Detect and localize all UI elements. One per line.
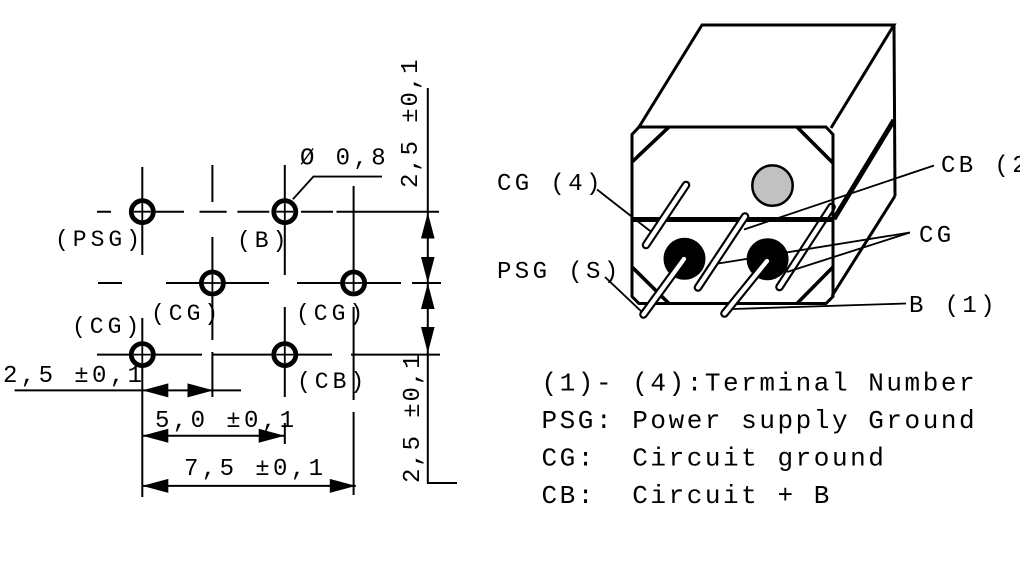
centerline col3 vertical [353,186,355,495]
lead terminal S (through left hole) [644,259,685,315]
arrow down at row2 [421,257,435,283]
svg-text:CG: Circuit ground: CG: Circuit ground [542,444,887,474]
arrow left at col0 [142,383,168,397]
leader CG fan upper [712,233,910,265]
centerline col2 vertical [284,165,286,444]
svg-text:CG: CG [919,223,955,250]
pin CB (bottom-center) [274,344,296,366]
pin PSG (top-left) [131,201,153,223]
lead terminal 2 (middle) [698,217,745,288]
right face thick stripe [834,120,894,219]
centerline col1 vertical [211,165,213,397]
svg-text:PSG (S): PSG (S) [497,259,622,286]
leader PSG (S) [605,277,644,314]
right face back edge [894,25,895,196]
svg-text:PSG: Power supply Ground: PSG: Power supply Ground [542,406,978,436]
arrow right at col1 [188,383,214,397]
svg-text:(1)- (4):Terminal Number: (1)- (4):Terminal Number [542,369,978,399]
front right edge restroke [832,135,835,297]
pin CG (bottom-left) [131,344,153,366]
leader B (1) [733,304,906,310]
arrow down at row3 [421,327,435,353]
pin CG (middle-right) [343,272,365,294]
top face [639,25,894,128]
tick at bottom of vertical dimension line [427,482,457,484]
arrow left 5,0 [142,429,168,443]
svg-text:(PSG): (PSG) [55,227,144,253]
gray circle (sealing hole) [752,165,792,205]
lead terminal 3 (far right, under divider) [780,207,832,287]
centerline col0 vertical [141,167,143,497]
svg-text:Ø 0,8: Ø 0,8 [300,146,389,173]
svg-text:(CB): (CB) [297,369,368,395]
svg-text:CG (4): CG (4) [497,171,604,198]
centerline row2 horizontal [98,282,441,284]
dim line 5,0 [142,435,284,437]
arrow left 7,5 [142,479,168,493]
lead terminal 1 (through right hole) [725,261,768,314]
svg-text:CB: Circuit + B: CB: Circuit + B [542,481,832,511]
leader for Ø 0,8 [293,177,382,200]
front divider thick line [632,217,833,222]
svg-text:7,5 ±0,1: 7,5 ±0,1 [184,456,326,483]
dim line 7,5 [142,485,355,487]
svg-text:(CG): (CG) [72,314,143,340]
svg-text:2,5 ±0,1: 2,5 ±0,1 [400,353,427,483]
svg-text:CB (2): CB (2) [941,153,1020,180]
arrow up at row2 [421,283,435,309]
chamfer top-left [632,127,669,162]
vertical dimension line (right of layout) [427,88,429,483]
pin B (top-right) [274,201,296,223]
lead terminal 4 (upper left) [646,185,686,245]
front face outline [632,127,833,304]
chamfer top-right [797,127,833,163]
centerline row3 horizontal [97,354,440,356]
chamfer bottom-left [632,267,669,304]
arrow right 7,5 [330,479,356,493]
svg-text:2,5 ±0,1: 2,5 ±0,1 [398,58,425,188]
arrow right 5,0 [259,429,285,443]
svg-text:(CG): (CG) [296,301,367,327]
svg-text:2,5 ±0,1: 2,5 ±0,1 [3,363,145,390]
dim line 2,5 [15,389,241,391]
pin CG (middle-left) [201,272,223,294]
leader CG (4) [597,190,654,235]
svg-text:(CG): (CG) [151,301,222,327]
centerline row1 horizontal [97,211,439,213]
arrow up at row1 [421,213,435,239]
leader CB (2) [744,166,934,230]
black hole left [664,238,706,280]
svg-text:(B): (B) [237,228,290,254]
svg-text:5,0 ±0,1: 5,0 ±0,1 [155,408,297,435]
leader CG fan lower [787,233,910,273]
svg-text:B (1): B (1) [909,293,998,320]
black hole right [747,238,789,280]
right face bottom edge [832,196,895,296]
chamfer bottom-right [797,267,833,304]
